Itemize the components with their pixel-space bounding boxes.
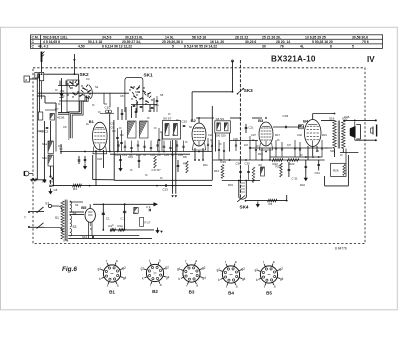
svg-text:R3: R3 xyxy=(269,202,273,206)
svg-text:16 14, 20: 16 14, 20 xyxy=(210,40,224,44)
wire xfmr top to ext xyxy=(343,119,377,121)
svg-text:C36: C36 xyxy=(236,161,242,165)
mains switch upper xyxy=(28,207,44,213)
svg-text:C 2: C 2 xyxy=(121,217,126,221)
svg-text:14 9L: 14 9L xyxy=(165,35,174,39)
component R7 xyxy=(152,156,162,172)
wire B4 plate xyxy=(313,114,335,121)
parts value table xyxy=(31,35,383,49)
svg-text:R1a: R1a xyxy=(118,224,124,228)
svg-text:C15: C15 xyxy=(164,153,169,157)
svg-text:f: f xyxy=(225,260,226,264)
transformer secondary S2 xyxy=(70,201,77,215)
svg-text:4,50: 4,50 xyxy=(78,45,85,49)
wire B5 top xyxy=(89,204,91,208)
svg-text:C1: C1 xyxy=(106,217,110,221)
wire sk2 bank xyxy=(58,81,75,86)
svg-text:25 21 26 26,: 25 21 26 26, xyxy=(262,35,281,39)
svg-text:R14: R14 xyxy=(258,152,263,156)
svg-text:C10: C10 xyxy=(105,106,111,110)
svg-text:C21: C21 xyxy=(249,126,254,130)
svg-text:f: f xyxy=(149,259,150,263)
svg-text:30,18 21 6L: 30,18 21 6L xyxy=(125,35,143,39)
wire B+ rail xyxy=(93,203,157,207)
resistor R20 xyxy=(287,159,299,162)
svg-text:f: f xyxy=(107,284,108,288)
svg-text:f: f xyxy=(226,285,227,289)
svg-text:R6: R6 xyxy=(157,153,161,157)
svg-text:C36: C36 xyxy=(344,115,350,119)
wire B1 bottom xyxy=(96,150,104,186)
volume potentiometer xyxy=(239,181,247,200)
wire AVC xyxy=(43,121,46,182)
capacitor C34 xyxy=(315,160,321,175)
svg-text:S2: S2 xyxy=(75,203,79,207)
wire B2 bottom xyxy=(195,148,203,160)
svg-text:R2: R2 xyxy=(133,211,137,215)
switch SK3 contact xyxy=(237,88,244,95)
rectifier B5 xyxy=(85,209,95,227)
resistor R6a xyxy=(259,163,265,176)
wire det rail xyxy=(222,180,260,182)
svg-text:g4: g4 xyxy=(242,277,246,281)
capacitor C16b xyxy=(119,155,122,171)
tube B2 xyxy=(192,123,206,150)
svg-text:50,1 3 18: 50,1 3 18 xyxy=(88,40,102,44)
svg-text:R4: R4 xyxy=(73,187,77,191)
svg-text:5 50,28 16 20: 5 50,28 16 20 xyxy=(312,40,333,44)
wire C10 drop xyxy=(104,93,110,107)
wire B1 right rail xyxy=(109,114,111,152)
wire pickup lead xyxy=(30,179,46,181)
svg-text:SK2: SK2 xyxy=(80,72,90,77)
junction dots 2 xyxy=(41,61,336,215)
switch SK2 contacts xyxy=(69,81,91,98)
capacitor C8 xyxy=(49,180,57,194)
osc cap sticks xyxy=(132,106,138,118)
switch SK1 contacts xyxy=(130,86,151,102)
svg-text:R 27: R 27 xyxy=(145,221,151,225)
wire speaker bottom to ext xyxy=(355,139,377,141)
switch E1 xyxy=(46,202,52,208)
svg-text:g4: g4 xyxy=(166,276,170,280)
wire osc line horiz xyxy=(192,91,232,93)
capacitor C33 xyxy=(283,114,289,128)
AF section box xyxy=(114,152,212,180)
svg-text:6 5,14 90 55 24 14,22: 6 5,14 90 55 24 14,22 xyxy=(184,45,217,49)
svg-text:25k: 25k xyxy=(60,89,65,93)
svg-text:R24: R24 xyxy=(300,183,305,187)
wire AF box right tall xyxy=(211,106,213,152)
IF transformer 1 can xyxy=(163,121,181,140)
coil S1a xyxy=(48,141,53,154)
svg-text:f: f xyxy=(186,284,187,288)
resistor R16 xyxy=(299,125,304,129)
svg-text:R9: R9 xyxy=(49,180,53,184)
svg-text:76: 76 xyxy=(280,45,284,49)
svg-text:C4: C4 xyxy=(86,77,90,81)
wire R3 up xyxy=(286,195,288,201)
svg-text:S1a: S1a xyxy=(42,142,48,146)
filament rail 2 xyxy=(68,238,152,240)
svg-text:6 6,114 96 13 12,22: 6 6,114 96 13 12,22 xyxy=(102,45,132,49)
speaker magnet bracket xyxy=(356,125,360,140)
svg-text:g1: g1 xyxy=(255,268,259,272)
svg-text:0,5: 0,5 xyxy=(287,143,291,147)
svg-text:B5: B5 xyxy=(81,205,87,210)
svg-text:C 31: C 31 xyxy=(292,177,298,181)
resistor R1a xyxy=(118,224,125,231)
svg-text:g2: g2 xyxy=(165,265,169,269)
antenna terminal A xyxy=(42,52,45,63)
svg-text:S1: S1 xyxy=(55,216,59,220)
resistor R4 xyxy=(73,184,82,191)
svg-text:a: a xyxy=(273,260,275,264)
wire mid rail 2 xyxy=(110,153,190,155)
wire top af rail xyxy=(270,156,322,158)
svg-text:C11: C11 xyxy=(115,153,120,157)
svg-text:g2: g2 xyxy=(122,266,126,270)
svg-text:S6 S7: S6 S7 xyxy=(163,117,172,121)
svg-text:SK3: SK3 xyxy=(244,88,253,93)
svg-text:f: f xyxy=(25,216,26,220)
svg-text:B5: B5 xyxy=(266,291,272,296)
svg-text:R21: R21 xyxy=(322,133,327,137)
table tiny text xyxy=(32,35,369,48)
svg-text:500 520: 500 520 xyxy=(216,134,227,138)
svg-text:5: 5 xyxy=(352,45,354,49)
svg-text:IV: IV xyxy=(367,55,375,64)
svg-text:S2: S2 xyxy=(95,85,99,89)
wire arc SK2 xyxy=(89,85,92,98)
wire osc hrail xyxy=(131,96,158,112)
svg-text:R6: R6 xyxy=(259,163,263,167)
wire AF rail xyxy=(213,159,325,161)
svg-text:a: a xyxy=(236,285,238,289)
capacitor C31 xyxy=(288,162,298,181)
svg-text:25: 25 xyxy=(316,149,319,153)
output transformer primary xyxy=(333,121,337,149)
output transformer core xyxy=(338,121,339,149)
wire xfmr sec leg xyxy=(345,149,347,164)
coil shield box L1 xyxy=(67,80,79,112)
svg-text:g1: g1 xyxy=(141,266,145,270)
svg-text:C6: C6 xyxy=(63,125,67,129)
wire B2 top xyxy=(198,118,200,123)
svg-text:C27: C27 xyxy=(251,133,256,137)
capacitor C1 antenna xyxy=(39,73,43,100)
svg-text:C8: C8 xyxy=(54,188,58,192)
svg-text:S5: S5 xyxy=(160,93,164,97)
svg-text:BX321A-10: BX321A-10 xyxy=(271,55,316,64)
wire gnd rail xyxy=(110,229,154,231)
transformer primary S1 xyxy=(55,201,64,239)
svg-text:g4: g4 xyxy=(202,276,206,280)
ground rail arrows xyxy=(156,228,163,234)
external speaker terminals xyxy=(371,125,377,137)
resistor R3 xyxy=(268,199,278,206)
component cluster af xyxy=(177,160,189,173)
svg-text:g4: g4 xyxy=(123,276,127,280)
svg-text:B1: B1 xyxy=(109,290,115,295)
svg-text:SK1: SK1 xyxy=(144,73,154,78)
capacitor C1 filter xyxy=(102,203,110,229)
wire coupling xyxy=(273,126,304,128)
svg-text:20,50 27 34,: 20,50 27 34, xyxy=(122,40,141,44)
wire left col bottom xyxy=(50,121,52,176)
wire mains primary lower xyxy=(44,227,63,232)
wire feedback xyxy=(325,155,349,186)
junction pickup xyxy=(42,175,54,183)
capacitor C19 gnd xyxy=(84,156,87,169)
tube socket diagram B4 xyxy=(217,260,246,296)
svg-text:B3: B3 xyxy=(189,290,195,295)
wire speaker return xyxy=(171,140,177,198)
svg-text:28 21 22: 28 21 22 xyxy=(235,35,248,39)
resistor R27 xyxy=(140,218,151,227)
coil S4 osc xyxy=(140,121,149,138)
svg-text:C9: C9 xyxy=(112,129,116,133)
svg-text:a: a xyxy=(25,78,27,82)
svg-text:R13: R13 xyxy=(214,169,219,173)
wire osc line vert xyxy=(231,60,233,92)
svg-text:25 29,30,38 3: 25 29,30,38 3 xyxy=(162,40,183,44)
svg-text:R8: R8 xyxy=(183,162,187,166)
switch SK4 xyxy=(237,196,249,210)
svg-text:S18: S18 xyxy=(330,149,335,153)
output transformer secondary xyxy=(342,121,346,149)
svg-text:R25: R25 xyxy=(276,165,282,169)
resistor R25 xyxy=(276,163,283,177)
svg-text:a: a xyxy=(235,260,237,264)
svg-text:B3: B3 xyxy=(258,118,264,123)
wire sec to B5 top xyxy=(70,201,84,203)
svg-text:g2: g2 xyxy=(241,267,245,271)
svg-text:28 20, 14: 28 20, 14 xyxy=(276,40,290,44)
feedback box xyxy=(331,163,346,176)
svg-text:f: f xyxy=(264,285,265,289)
svg-text:C34: C34 xyxy=(315,171,321,175)
wire grid bus xyxy=(38,92,129,94)
svg-text:B4: B4 xyxy=(228,291,234,296)
svg-text:30: 30 xyxy=(262,45,266,49)
capacitor bank IF section xyxy=(117,141,184,152)
svg-text:S7: S7 xyxy=(172,133,176,137)
svg-text:B4: B4 xyxy=(303,119,309,124)
svg-text:SK1: SK1 xyxy=(135,90,141,94)
svg-text:C32: C32 xyxy=(297,133,302,137)
IF1 coil a xyxy=(165,124,169,136)
capacitor C21 xyxy=(245,124,254,133)
wire left rail b xyxy=(39,74,41,112)
wire above tubes xyxy=(196,117,262,119)
svg-text:C13: C13 xyxy=(122,153,127,157)
capacitor C36b xyxy=(236,161,242,180)
switch SK1 extra contacts xyxy=(129,85,152,104)
svg-text:40, 4 2: 40, 4 2 xyxy=(38,45,48,49)
svg-text:a: a xyxy=(196,284,198,288)
wire left rail xyxy=(36,74,38,181)
wire antenna lead-in xyxy=(41,62,43,72)
resistor R15 xyxy=(221,160,227,179)
svg-text:B2: B2 xyxy=(191,118,197,123)
svg-text:R20: R20 xyxy=(289,162,295,166)
capacitor C30 xyxy=(245,161,251,180)
AF box left edge xyxy=(93,155,115,180)
svg-text:R3: R3 xyxy=(120,133,124,137)
tube socket diagram B5 xyxy=(255,260,284,296)
svg-text:g2: g2 xyxy=(202,266,206,270)
svg-text:g2: g2 xyxy=(279,267,283,271)
capacitor C3 xyxy=(46,127,49,128)
svg-text:R8: R8 xyxy=(183,155,187,159)
wire sec mid2 xyxy=(70,214,85,216)
capacitor sticks left of IF1 xyxy=(158,128,162,152)
wire B1 legs xyxy=(95,149,104,152)
svg-text:502,6 88,5 131L: 502,6 88,5 131L xyxy=(43,35,68,39)
wire B3 grid return xyxy=(230,140,258,142)
transformer core xyxy=(65,200,67,241)
capacitor C2 filter xyxy=(121,203,127,229)
svg-text:4 5 16,65 8: 4 5 16,65 8 xyxy=(43,40,60,44)
resistor R9 xyxy=(31,179,37,181)
resistor R22 xyxy=(272,159,283,162)
svg-text:58 0,5 16: 58 0,5 16 xyxy=(192,35,206,39)
IF1 coil b xyxy=(174,124,178,136)
wire osc line down xyxy=(191,92,193,120)
IF2 coil a xyxy=(217,123,221,131)
trimmer C10 xyxy=(105,106,112,114)
transformer secondary S3 xyxy=(70,216,77,230)
svg-text:a: a xyxy=(274,285,276,289)
svg-text:C23: C23 xyxy=(163,188,169,192)
tube socket diagram B3 xyxy=(177,259,206,295)
tube socket diagram B2 xyxy=(141,258,170,294)
svg-text:C6: C6 xyxy=(111,126,115,130)
svg-text:5: 5 xyxy=(172,45,174,49)
wire bundle tuning gang xyxy=(69,95,88,138)
svg-text:R17: R17 xyxy=(275,133,280,137)
mains switch lower xyxy=(28,223,44,229)
svg-text:f: f xyxy=(150,284,151,288)
IF transformer 2 can xyxy=(215,121,231,133)
wire osc loop xyxy=(125,77,143,112)
svg-text:C33: C33 xyxy=(283,114,289,118)
svg-text:C20: C20 xyxy=(182,120,188,124)
switch SK2 extra contacts xyxy=(67,80,90,99)
wire SK4 to R3 xyxy=(246,200,287,202)
svg-text:4L: 4L xyxy=(300,45,304,49)
capacitor C35 xyxy=(304,160,307,181)
wire tuner col extra xyxy=(37,103,56,152)
wire B5 filament drop xyxy=(89,222,93,239)
svg-text:C18: C18 xyxy=(97,157,102,161)
svg-text:R19: R19 xyxy=(228,183,233,187)
wire SK2 stem xyxy=(78,74,80,84)
svg-text:g4: g4 xyxy=(280,277,284,281)
svg-text:S4a: S4a xyxy=(63,239,69,243)
labels component row xyxy=(115,153,183,157)
svg-text:50: 50 xyxy=(189,125,192,129)
tube B4 xyxy=(304,120,321,147)
svg-text:C5: C5 xyxy=(58,144,62,148)
resistor R18 xyxy=(252,167,255,183)
antenna terminal block xyxy=(35,73,39,79)
svg-text:SK4: SK4 xyxy=(240,205,249,210)
svg-text:B1: B1 xyxy=(89,119,95,124)
svg-text:30,23 6: 30,23 6 xyxy=(245,40,256,44)
svg-text:g1: g1 xyxy=(177,267,181,271)
wire B4 legs xyxy=(308,146,317,160)
svg-text:100: 100 xyxy=(136,153,141,157)
svg-text:C30: C30 xyxy=(245,161,251,165)
rail dots xyxy=(117,151,271,206)
svg-text:C15: C15 xyxy=(128,155,133,159)
label L13 xyxy=(82,235,94,239)
svg-text:S13: S13 xyxy=(82,235,87,239)
filament rail 1 xyxy=(68,235,139,237)
svg-text:S8 S9: S8 S9 xyxy=(216,117,225,121)
capacitor sticks detector area xyxy=(207,136,323,160)
svg-text:g1: g1 xyxy=(98,267,102,271)
chassis dashed boundary xyxy=(33,68,365,244)
svg-text:f: f xyxy=(263,260,264,264)
speaker cone xyxy=(350,126,355,137)
wire B3 bottom xyxy=(262,148,270,160)
coil S3 osc xyxy=(128,121,137,138)
svg-text:S3: S3 xyxy=(73,225,77,229)
capacitor C20 xyxy=(182,120,188,127)
transformer secondary S4 xyxy=(63,229,72,243)
svg-text:8: 8 xyxy=(330,45,332,49)
speaker frame line xyxy=(354,122,356,141)
coil S1b xyxy=(48,155,53,166)
svg-text:a: a xyxy=(116,259,118,263)
component C17 xyxy=(138,155,141,168)
wire SK2 feed xyxy=(44,73,79,75)
wire under B3 B4 rail xyxy=(250,147,332,149)
capacitor C5 xyxy=(58,144,62,154)
resistor R block xyxy=(50,114,55,121)
primary loop xyxy=(52,206,62,210)
svg-text:8·64776: 8·64776 xyxy=(335,247,347,251)
osc component cluster xyxy=(133,102,143,112)
svg-text:75 6: 75 6 xyxy=(362,40,369,44)
tube B1 xyxy=(93,122,108,154)
svg-text:4C06: 4C06 xyxy=(57,116,65,120)
svg-text:Fig.6: Fig.6 xyxy=(62,266,77,273)
wire mid rail 1 xyxy=(61,151,212,153)
wire B1 right rail2 xyxy=(113,120,115,152)
capacitor sticks right of B1 xyxy=(116,128,123,152)
svg-text:R11: R11 xyxy=(203,163,208,167)
diode D1 left xyxy=(60,78,64,112)
svg-text:13 6,35 29 25: 13 6,35 29 25 xyxy=(305,35,326,39)
pickup connector xyxy=(24,171,33,176)
svg-text:C17 R7: C17 R7 xyxy=(152,168,162,172)
svg-text:f: f xyxy=(185,259,186,263)
svg-text:34,5 6: 34,5 6 xyxy=(102,35,112,39)
ground SK4 xyxy=(256,202,259,207)
wire left col to rail xyxy=(52,166,54,186)
resistor R1 fil xyxy=(109,224,116,231)
wire sec mid xyxy=(70,211,85,213)
svg-text:a: a xyxy=(117,284,119,288)
svg-text:R2 C3: R2 C3 xyxy=(40,130,49,134)
svg-text:S1b: S1b xyxy=(42,156,48,160)
svg-text:30,58 30,6: 30,58 30,6 xyxy=(352,35,368,39)
capacitor C18 xyxy=(38,112,42,120)
